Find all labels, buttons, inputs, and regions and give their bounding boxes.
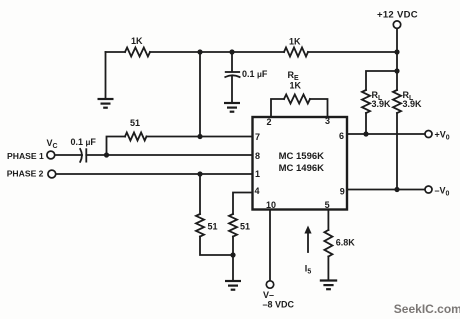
svg-text:I5: I5 bbox=[305, 264, 312, 276]
svg-text:PHASE 2: PHASE 2 bbox=[7, 169, 44, 179]
svg-text:51: 51 bbox=[130, 118, 140, 128]
wire vertical supply branch x=397 upper bbox=[396, 52, 398, 90]
wire pin 4 bend bbox=[233, 193, 253, 215]
arrowhead I5 bbox=[304, 226, 311, 234]
resistor 51 vertical left bbox=[196, 214, 204, 237]
svg-text:+12 VDC: +12 VDC bbox=[377, 10, 418, 21]
wire I5 arrow shaft bbox=[307, 231, 309, 252]
svg-text:–V0: –V0 bbox=[435, 186, 450, 198]
svg-text:5: 5 bbox=[325, 200, 330, 210]
terminal PHASE 2 bbox=[48, 170, 56, 178]
resistor 1K (top left) bbox=[125, 48, 150, 57]
svg-text:51: 51 bbox=[208, 221, 218, 231]
wire junction to bottom ground bbox=[232, 237, 234, 281]
wire pin7 left bend bbox=[107, 137, 126, 156]
wire phase1 to coupling cap bbox=[55, 154, 82, 156]
junction node 51 common bbox=[230, 252, 235, 257]
svg-text:6: 6 bbox=[339, 131, 344, 141]
terminal PHASE 1 bbox=[47, 151, 55, 159]
resistor RL left 3.9K bbox=[362, 90, 370, 113]
wire pin 5 down bbox=[327, 210, 329, 231]
junction node pin7 wire bbox=[197, 134, 202, 139]
svg-text:1K: 1K bbox=[131, 36, 143, 46]
svg-text:1K: 1K bbox=[290, 80, 302, 90]
svg-text:SeekIC.com: SeekIC.com bbox=[394, 302, 460, 316]
svg-text:MC 1596K: MC 1596K bbox=[279, 151, 325, 162]
svg-text:VC: VC bbox=[47, 138, 58, 150]
svg-text:MC 1496K: MC 1496K bbox=[279, 163, 325, 174]
svg-text:3.9K: 3.9K bbox=[403, 99, 423, 109]
svg-text:6.8K: 6.8K bbox=[336, 237, 356, 247]
terminal -V0 bbox=[425, 186, 432, 193]
wire cap to pin 8 bbox=[86, 154, 252, 156]
svg-text:7: 7 bbox=[255, 132, 260, 142]
terminal V- bbox=[266, 281, 273, 288]
wire RE bridge right bbox=[310, 99, 328, 117]
wire vertical to left ground bbox=[105, 52, 107, 99]
ground (bottom 51 resistors) bbox=[225, 281, 241, 290]
terminal +12 VDC bbox=[393, 21, 400, 28]
junction node pin6 wire bbox=[363, 131, 368, 136]
wire vertical x=200 rail-to-pin7 bbox=[199, 52, 201, 137]
wire capacitor to ground bbox=[231, 76, 233, 103]
terminal +V0 bbox=[425, 131, 432, 138]
wire +12VDC drop bbox=[396, 28, 398, 52]
svg-text:1K: 1K bbox=[289, 37, 301, 47]
resistor 51 vertical right bbox=[229, 214, 237, 237]
wire pin 6 output bbox=[347, 133, 425, 135]
wire top rail middle bbox=[150, 51, 284, 53]
junction node rail/cap bbox=[229, 49, 234, 54]
resistor 1K (top right) bbox=[284, 48, 308, 57]
svg-text:8: 8 bbox=[255, 151, 260, 161]
wire RL left branch horizontal bbox=[366, 71, 397, 90]
svg-text:3.9K: 3.9K bbox=[372, 99, 392, 109]
resistor RL right 3.9K bbox=[393, 90, 401, 113]
junction node pin1 wire bbox=[197, 171, 202, 176]
wire pin 9 output bbox=[347, 189, 425, 191]
wire 51 to pin 7 bbox=[147, 136, 253, 138]
wire capacitor branch top bbox=[231, 52, 233, 71]
junction node rail/+12 bbox=[394, 49, 399, 54]
junction node pin9 wire bbox=[394, 187, 399, 192]
wire pin1 node down bbox=[199, 174, 201, 214]
wire pin 10 down bbox=[269, 210, 271, 281]
svg-text:4: 4 bbox=[255, 186, 260, 196]
wire 6.8K to ground bbox=[327, 257, 329, 281]
svg-text:51: 51 bbox=[240, 221, 250, 231]
junction node cap/pin8 wire bbox=[104, 152, 109, 157]
wire top rail right segment bbox=[308, 51, 397, 53]
svg-text:–8 VDC: –8 VDC bbox=[263, 300, 295, 310]
wire RE bridge bbox=[271, 99, 284, 117]
svg-text:PHASE 1: PHASE 1 bbox=[7, 151, 44, 161]
svg-text:0.1 μF: 0.1 μF bbox=[71, 137, 97, 147]
svg-text:10: 10 bbox=[266, 200, 276, 210]
ground (capacitor branch) bbox=[224, 103, 240, 112]
capacitor C2 0.1uF left plate bbox=[80, 149, 82, 162]
svg-text:+V0: +V0 bbox=[435, 130, 450, 142]
junction node RL split bbox=[394, 68, 399, 73]
ground (top left) bbox=[98, 99, 114, 108]
ground (6.8K) bbox=[320, 281, 337, 290]
svg-text:2: 2 bbox=[267, 117, 272, 127]
wire RL right to pin9 rail bbox=[396, 113, 398, 190]
svg-text:9: 9 bbox=[340, 186, 345, 196]
wire top rail left segment bbox=[106, 51, 126, 53]
capacitor C1 0.1uF bottom plate bbox=[225, 75, 239, 77]
wire RL left to pin6 wire bbox=[365, 113, 367, 134]
capacitor C1 0.1uF top plate bbox=[226, 71, 240, 73]
svg-text:1: 1 bbox=[255, 169, 260, 179]
svg-text:0.1 μF: 0.1 μF bbox=[242, 69, 268, 79]
wire 51 left bottom to junction bbox=[200, 237, 233, 256]
svg-text:3: 3 bbox=[325, 116, 330, 126]
op-amp U1 MC1596K/MC1496K box bbox=[253, 117, 348, 210]
wire phase2 to pin 1 bbox=[56, 173, 253, 175]
resistor 51 horizontal bbox=[125, 133, 147, 141]
capacitor C2 0.1uF right plate bbox=[85, 149, 87, 161]
resistor RE 1K bbox=[284, 95, 310, 104]
resistor 6.8K bbox=[324, 230, 332, 257]
junction node rail/x200 bbox=[197, 49, 202, 54]
